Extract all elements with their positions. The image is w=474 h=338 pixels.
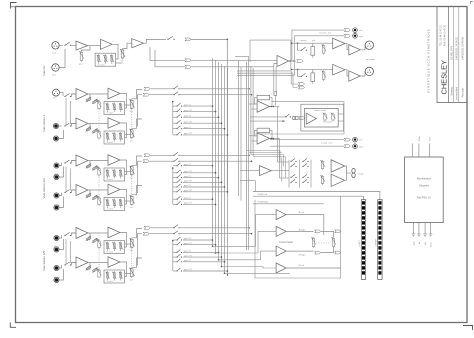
wire DJ bus drop: [226, 39, 228, 193]
wire record mix amp input -: [274, 64, 277, 67]
svg-text:Plot date: Plot date: [461, 87, 464, 97]
switch Voie stéréo 1 source bottom: [64, 125, 65, 126]
wire casque feeds: [278, 161, 290, 163]
wire DJ amp2 to eq: [112, 44, 118, 59]
fader DJ: [122, 49, 124, 51]
crop mark top-right: [471, 1, 474, 3]
title block divider col3: [458, 7, 460, 103]
svg-text:Cross Fader: Cross Fader: [279, 240, 293, 244]
switch st23 row 8: [176, 204, 177, 205]
wire record+DJ R feed: [294, 35, 344, 37]
title block divider CHESLEY column: [448, 7, 450, 103]
net symbol record L top: [344, 29, 350, 32]
switch st1 row 2: [176, 111, 177, 112]
amp stage Voie stéréo 2/3 Rb: [108, 184, 120, 195]
amp stage Voie stéréo 4/5 Rb: [108, 257, 120, 268]
switch Voie stéréo 4/5 source bottom: [64, 264, 65, 265]
svg-text:casque mode: casque mode: [314, 110, 327, 112]
switch Voie stéréo 4/5 source top: [64, 235, 65, 236]
svg-text:CHESLEY: CHESLEY: [440, 60, 449, 95]
gain pot Voie stéréo 1 L a: [86, 97, 91, 101]
fader Voie stéréo 1 L: [131, 99, 133, 101]
wire Voie stéréo 4/5 pfl L to aux bus: [179, 227, 249, 229]
RCA input jack Voie stéréo 2/3 #4: [54, 205, 59, 210]
svg-text:lo mid hi: lo mid hi: [98, 64, 105, 66]
wire Voie stéréo 1 L eq to fader: [125, 104, 132, 106]
wire Voie stéréo 2/3 R amp2 out: [120, 190, 127, 205]
wire Voie stéréo 2/3 R eq to fader: [125, 200, 132, 202]
switch master right: [301, 76, 302, 77]
amp buffer Voie stéréo 1 Ra: [76, 118, 88, 129]
net symbol monitor: [299, 117, 305, 120]
wire PGM Right: [253, 203, 324, 205]
wire fan vertical: [172, 102, 174, 135]
master amp right 1: [333, 64, 345, 75]
switch st45 row 2: [176, 244, 177, 245]
wire record loop 1: [237, 71, 298, 84]
switch Voie stéréo 4/5 pfl R: [173, 233, 174, 234]
crossfader boundary rect: [255, 196, 341, 278]
monitor coupling symbol: [292, 116, 295, 119]
title block divider col2: [453, 7, 455, 103]
net symbol Voie stéréo 4/5 R out: [143, 232, 149, 235]
gain pot Voie stéréo 4/5 L b: [93, 238, 98, 242]
wire boundary corner crossfader feed: [240, 181, 255, 192]
net symbol Voie stéréo 2/3 L out: [144, 154, 150, 157]
wire Voie stéréo 4/5 R input: [72, 262, 77, 264]
gain pot Voie stéréo 4/5 R b: [93, 268, 98, 272]
gain pot Voie stéréo 2/3 R b: [93, 195, 98, 199]
svg-text:Voie DJ: Voie DJ: [42, 65, 46, 76]
switch DJ input: [64, 45, 65, 46]
gain pot Voie stéréo 2/3 L b: [93, 166, 98, 170]
wire master right to xlr: [360, 71, 365, 76]
crossfader amp B Left: [276, 263, 286, 273]
wire Voie stéréo 2/3 L output: [132, 156, 142, 165]
wire st23 row 6 to bus: [183, 191, 228, 193]
wire mixA feedback left: [254, 98, 257, 105]
wire record mid L: [270, 139, 344, 141]
wire DJ eq out: [116, 62, 123, 64]
wire master left to xlr: [360, 45, 365, 50]
wire Voie stéréo 1 L input: [72, 93, 77, 95]
switch st1 row 3: [176, 117, 177, 118]
svg-text:Drawing: Drawing: [451, 87, 454, 96]
wire Voie stéréo 4/5 R amp2 out: [120, 262, 127, 277]
fader Voie stéréo 4/5 L: [131, 238, 133, 240]
wire Voie stéréo 2/3 input select top: [59, 163, 62, 166]
wire st1 row 1 to bus: [183, 105, 213, 107]
wire Voie stéréo 4/5 L input: [72, 232, 77, 234]
svg-text:fad: fad: [121, 61, 124, 63]
wire Voie stéréo 1 select trunk B: [70, 101, 72, 124]
switch st23 row 7: [176, 199, 177, 200]
wire vertical feed casque B: [278, 138, 280, 178]
wire aux corner to casque A: [247, 151, 281, 162]
wire DJ mic2 up: [59, 49, 65, 68]
net symbol record loop 1: [298, 83, 304, 86]
wire st1 row 5 to bus: [183, 128, 225, 130]
switch Voie stéréo 4/5 pfl L: [173, 227, 174, 228]
wire bus to summing B: [249, 135, 257, 137]
wire st23 row 3 to bus: [183, 177, 219, 179]
wire st45 row 6 to bus: [183, 270, 228, 272]
wire Voie stéréo 2/3 R gain tap: [87, 190, 90, 197]
wire summing A top out: [272, 100, 344, 102]
wire aux corner to casque B: [249, 152, 282, 154]
net symbol Voie stéréo 2/3 R out: [143, 160, 149, 163]
gang line faders Voie stéréo 2/3: [131, 174, 133, 195]
svg-text:22Vn: 22Vn: [419, 136, 421, 142]
switch Voie stéréo 2/3 source top: [64, 162, 65, 163]
casque amp L: [331, 160, 345, 173]
RCA input jack Voie stéréo 2/3 #2: [54, 174, 59, 179]
svg-text:fad: fad: [130, 207, 133, 209]
wire Voie stéréo 1 select trunk A: [65, 98, 67, 125]
wire casque bundle vertical: [281, 158, 283, 182]
svg-text:lo mid hi: lo mid hi: [107, 209, 114, 211]
switch st45 row 1: [176, 239, 177, 240]
wire Voie stéréo 4/5 L eq to fader: [125, 243, 132, 245]
RCA input jack Voie stéréo 4/5 #4: [54, 277, 59, 282]
wire Voie stéréo 2/3 L amp1-amp2: [88, 160, 108, 162]
wire DJ amp1 out: [88, 45, 101, 47]
wire st23 row 8 to bus: [183, 203, 216, 205]
amp stage Voie stéréo 4/5 Lb: [108, 227, 120, 238]
master amp left 2: [349, 45, 360, 55]
net symbol record R top: [344, 34, 350, 37]
gang line pots Voie stéréo 2/3: [98, 175, 100, 200]
wire bus end to B Left: [222, 267, 277, 269]
XLR input Voie stéréo 1: [53, 89, 60, 96]
wire Voie stéréo 1 L amp2 out: [120, 94, 127, 109]
wire master right input row: [291, 68, 333, 70]
svg-text:right: right: [359, 35, 363, 38]
trim pot Voie stéréo 4/5 L: [98, 241, 100, 248]
wire bus end to A Left: [213, 215, 277, 247]
wire Voie stéréo 4/5 R output: [132, 258, 142, 267]
wire bus tap to aux top: [235, 57, 249, 64]
wire bus end to A Right: [216, 231, 277, 253]
wire Voie stéréo 2/3 select trunk A: [65, 167, 67, 192]
amp stage Voie stéréo 1 Rb: [108, 118, 120, 129]
net symbol Voie stéréo 1 L out: [144, 87, 150, 90]
wire Voie stéréo 4/5 R eq to fader: [125, 273, 132, 275]
wire Voie stéréo 2/3 L input: [72, 160, 77, 162]
switch st23 row 2: [176, 172, 177, 173]
svg-text:master: master: [300, 39, 306, 42]
svg-text:fad: fad: [130, 177, 133, 179]
wire Voie stéréo 1 R input: [72, 123, 77, 125]
crossfader amp A Left: [276, 210, 286, 220]
wire Voie stéréo 2/3 L eq to fader: [125, 171, 132, 173]
svg-text:mic: mic: [53, 98, 56, 100]
switch st23 row 1: [176, 165, 177, 166]
RCA input jack Voie stéréo 1 #1: [53, 123, 58, 128]
wire vertical feed casque A: [277, 107, 279, 163]
svg-text:freq apply: freq apply: [323, 122, 332, 124]
feedback resistor mixB: [257, 128, 269, 133]
gang line faders Voie stéréo 1: [131, 107, 133, 128]
svg-text:14/05/2001 14:34:20: 14/05/2001 14:34:20: [456, 36, 459, 60]
wire bus end to B Right: [219, 251, 277, 260]
send bus vertical line B: [240, 67, 242, 201]
insert connector strip in RIGHT: [378, 200, 382, 280]
switch DJ assign: [167, 39, 168, 40]
wire Voie stéréo 4/5 select trunk B: [70, 241, 72, 263]
wire mixB out junctions: [270, 137, 280, 139]
svg-text:lo mid hi: lo mid hi: [107, 179, 114, 181]
switch st45 row 5: [176, 261, 177, 262]
switch Voie stéréo 2/3 source bottom: [64, 192, 65, 193]
svg-text:PGM Left: PGM Left: [258, 193, 268, 196]
svg-text:in RIGHT: in RIGHT: [375, 238, 377, 247]
wire st23 row 5 to bus: [183, 186, 225, 188]
amp stage Voie stéréo 1 Lb: [108, 88, 120, 99]
gain pot Voie stéréo 4/5 L a: [86, 236, 91, 240]
crossfader gang dash: [316, 242, 331, 244]
monitor outer rect: [301, 104, 344, 131]
svg-text:B Left: B Left: [299, 264, 305, 267]
svg-text:phono: phono: [54, 205, 60, 207]
record mix amp U-rec: [277, 55, 289, 66]
wire aux corner to casque D: [253, 156, 285, 177]
resistor record mix out: [297, 60, 303, 63]
crop mark bottom-left: [10, 323, 16, 328]
gain pot Voie stéréo 1 R b: [93, 129, 98, 133]
gang line faders Voie stéréo 4/5: [131, 246, 133, 267]
svg-text:fad: fad: [130, 111, 133, 113]
wire st23 row 2 to bus: [183, 172, 216, 174]
amp buffer Voie stéréo 1 La: [76, 89, 88, 100]
RCA record mid right: [353, 144, 358, 149]
wire Voie stéréo 1 R output: [132, 119, 142, 128]
svg-text:lo mid hi: lo mid hi: [107, 281, 114, 283]
RCA input jack Voie stéréo 2/3 #3: [54, 193, 59, 198]
wire Voie stéréo 1 L gain tap: [87, 94, 90, 101]
gain pot Voie stéréo 1 R a: [86, 127, 91, 131]
wire Voie stéréo 2/3 R amp1-amp2: [88, 189, 108, 191]
amp buffer Voie stéréo 4/5 La: [76, 228, 88, 239]
wire bus to summing A: [249, 103, 257, 105]
net symbol record mid L: [344, 138, 350, 141]
feedback resistor mixA: [257, 95, 269, 100]
amp DJ second: [100, 39, 112, 49]
wire Voie stéréo 1 R out rise: [138, 95, 143, 127]
fader Voie stéréo 4/5 R: [131, 267, 133, 269]
resistor master right: [311, 73, 315, 82]
wire st45 row 1 to bus: [183, 239, 213, 241]
wire Voie stéréo 1 R gain tap: [87, 124, 90, 131]
wire monitor box out top: [338, 113, 344, 115]
wire Voie stéréo 1 pfl L to aux bus: [179, 88, 249, 90]
wire master left input row: [291, 42, 333, 44]
svg-text:right: right: [359, 145, 363, 148]
wire st45 row 3 to bus: [183, 251, 219, 253]
svg-text:fad: fad: [130, 250, 133, 252]
PSU top pin 1: [411, 144, 413, 158]
svg-text:casque: casque: [357, 173, 364, 175]
wire Voie stéréo 2/3 input select bottom: [59, 193, 62, 196]
wire A Left out: [286, 215, 324, 235]
amp buffer Voie stéréo 2/3 Ra: [76, 185, 88, 196]
crop mark bottom-right: [463, 326, 473, 331]
monitor pot 2: [332, 114, 334, 120]
RCA record mid Left: [353, 137, 358, 142]
svg-text:out master: out master: [366, 58, 376, 61]
wire Voie stéréo 2/3 L gain tap: [87, 161, 90, 168]
wire mixA feedback right: [270, 98, 273, 107]
svg-text:Voie stéréo 4/5: Voie stéréo 4/5: [42, 251, 46, 271]
EQ block Voie stéréo 4/5 R: [104, 270, 125, 283]
switch st45 row 4: [176, 257, 177, 258]
crossfader amp A Right: [276, 226, 286, 236]
program bus vertical lines: [212, 58, 214, 246]
summing amp mixB triangle: [257, 133, 269, 145]
monitor select box casque mode: [305, 108, 339, 127]
RCA input jack Voie stéréo 4/5 #1: [54, 235, 59, 240]
title block outline: [437, 7, 467, 103]
switch Voie stéréo 1 pfl R: [173, 94, 174, 95]
casque amp R: [331, 174, 345, 186]
monitor amp in box: [306, 113, 316, 124]
RCA record out Left: [353, 28, 358, 33]
wire monitor input: [250, 116, 286, 118]
wire st23 row 7 to bus: [183, 198, 213, 200]
switch st1 row 1: [176, 106, 177, 107]
wire Voie stéréo 1 L output: [132, 90, 142, 99]
svg-text:SYNOPTIQUE OCCA SYMETRIQUE: SYNOPTIQUE OCCA SYMETRIQUE: [427, 28, 431, 93]
wire Voie stéréo 1 R amp1-amp2: [88, 123, 108, 125]
wire monitor amp in: [240, 170, 260, 172]
wire master left inter: [345, 44, 349, 50]
svg-text:lo mid hi: lo mid hi: [107, 113, 114, 115]
fader Voie stéréo 2/3 R: [131, 195, 133, 197]
RCA input jack Voie stéréo 4/5 #2: [54, 247, 59, 252]
net symbol DJ rec L: [185, 59, 191, 62]
wire Voie stéréo 1 rca to amp2: [59, 125, 62, 127]
svg-text:Alimentation: Alimentation: [417, 177, 432, 181]
master amp right 2: [349, 71, 360, 81]
wire Voie stéréo 4/5 input select bottom: [59, 265, 62, 268]
wire DJ rec R: [155, 50, 185, 67]
trim pot Voie stéréo 4/5 R: [98, 271, 100, 278]
wire st1 row 6 to bus: [183, 134, 228, 136]
switch monitor: [285, 116, 286, 117]
svg-text:lo mid hi: lo mid hi: [107, 142, 114, 144]
wire B Right out: [286, 250, 313, 252]
wire master right inter: [345, 70, 349, 76]
gang line pots Voie stéréo 4/5: [98, 247, 100, 272]
PSU top pin 2: [418, 144, 420, 158]
EQ block Voie stéréo 1 R: [104, 131, 125, 144]
wire Voie stéréo 2/3 pfl L to aux bus: [179, 154, 249, 156]
trim pot Voie stéréo 1 L: [98, 102, 100, 109]
wire st1 row 3 to bus: [183, 116, 219, 118]
wire Voie stéréo 4/5 L output: [132, 229, 142, 238]
fader Voie stéréo 2/3 L: [131, 165, 133, 167]
net symbol Voie stéréo 1 R out: [143, 93, 149, 96]
gain pot Voie stéréo 2/3 R a: [86, 193, 91, 197]
casque pot L: [321, 162, 323, 169]
wire st45 row 4 to bus: [183, 256, 222, 258]
junction DJ bus: [226, 39, 228, 41]
svg-text:Voie stéréo 2/3: Voie stéréo 2/3: [42, 178, 46, 198]
switch master left: [301, 50, 302, 51]
aux bus vertical lines: [246, 62, 248, 250]
svg-text:phono: phono: [54, 277, 60, 279]
wire PGM Left: [253, 196, 364, 200]
switch st23 row 5: [176, 186, 177, 187]
switch Voie stéréo 2/3 pfl R: [173, 161, 174, 162]
wire record mix amp output: [289, 60, 296, 62]
wire st1 row 2 to bus: [183, 111, 216, 113]
master level pot left: [323, 46, 325, 54]
RCA record out right: [353, 34, 358, 39]
casque pot R: [321, 177, 323, 184]
wire monitor box out bottom: [338, 120, 344, 122]
wire mixB feedback left: [254, 130, 257, 136]
amp buffer Voie stéréo 2/3 La: [76, 155, 88, 166]
switch Voie stéréo 1 source top: [64, 96, 65, 97]
svg-text:A Left: A Left: [299, 211, 305, 214]
wire record loop 3: [237, 36, 294, 76]
wire PGM send upper: [253, 192, 380, 200]
XLR input mic 1: [52, 42, 59, 49]
svg-text:Last modified: Last modified: [456, 86, 459, 101]
wire Voie stéréo 4/5 input select top: [59, 235, 62, 238]
net symbol record loop 2: [298, 86, 304, 89]
wire mixA out junctions: [270, 106, 280, 108]
EQ block Voie stéréo 2/3 L: [104, 168, 125, 181]
summing amp mixA triangle: [257, 101, 269, 113]
wire DJ mic1 to switch: [59, 44, 63, 46]
wire st23 row 4 to bus: [183, 181, 222, 183]
wire Voie stéréo 1 R amp2 out: [120, 123, 127, 138]
wire record vert pair B: [275, 67, 277, 92]
net symbol Voie stéréo 4/5 L out: [144, 226, 150, 229]
svg-text:Voie stéréo 1: Voie stéréo 1: [42, 114, 46, 132]
wire DJ out jog: [144, 39, 166, 43]
wire st45 row 2 to bus: [183, 244, 216, 246]
wire master right feed: [290, 43, 292, 69]
gain pot DJ: [80, 53, 82, 61]
svg-text:lo mid hi: lo mid hi: [107, 252, 114, 254]
switch Voie stéréo 2/3 pfl L: [173, 155, 174, 156]
wire record+DJ L feed: [292, 30, 344, 61]
net symbol DJ: [185, 38, 191, 41]
master amp left 1: [333, 38, 345, 49]
wire Voie stéréo 2/3 R out rise: [138, 161, 143, 193]
wire st1 row 4 to bus: [183, 122, 222, 124]
switch st23 row 3: [176, 177, 177, 178]
monitor amp triangle left: [260, 166, 272, 176]
svg-text:14/05/2001 15:49:56: 14/05/2001 15:49:56: [461, 36, 464, 60]
wire Voie stéréo 4/5 R out rise: [138, 234, 143, 266]
switch st1 row 5: [176, 128, 177, 129]
switch Voie stéréo 1 pfl L: [173, 88, 174, 89]
wire mixB feedback right: [270, 130, 273, 138]
wire st45 row 5 to bus: [183, 261, 225, 263]
switch st45 row 6: [176, 270, 177, 271]
resistor vertical node: [274, 92, 277, 96]
resistor master left: [311, 47, 315, 56]
svg-text:PGM Right: PGM Right: [258, 201, 269, 204]
wire Voie stéréo 4/5 select trunk A: [65, 239, 67, 264]
svg-text:Left: Left: [359, 139, 363, 142]
trim pot Voie stéréo 2/3 L: [98, 169, 100, 176]
amp DJ input: [76, 41, 88, 50]
